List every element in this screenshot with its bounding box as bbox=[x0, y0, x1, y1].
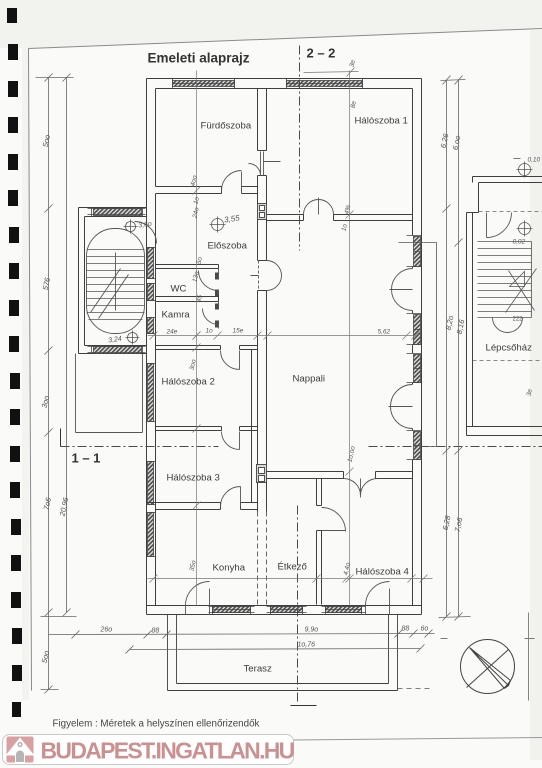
door Konyha north bbox=[221, 487, 241, 507]
wall H1 south / Nappali north bbox=[267, 215, 413, 221]
svg-text:9,9o: 9,9o bbox=[305, 627, 319, 634]
stairwell level circle 0,02 bbox=[517, 221, 533, 237]
level marker 3,60 bbox=[124, 220, 138, 234]
door H4 bbox=[322, 508, 346, 532]
door H4-Terasz (bottom wall) bbox=[366, 582, 390, 615]
svg-text:Hálószoba 3: Hálószoba 3 bbox=[167, 473, 220, 484]
flue block lower (chimney) bbox=[257, 465, 267, 483]
balcony door east (double leaf) bbox=[390, 269, 413, 311]
stairwell treads bbox=[478, 242, 532, 318]
svg-text:Figyelem : Méretek a helyszíne: Figyelem : Méretek a helyszínen ellenőri… bbox=[53, 719, 260, 730]
window top-1 bbox=[173, 79, 235, 89]
door H2 bbox=[221, 351, 240, 370]
wall WC north bbox=[156, 265, 219, 269]
terasz bbox=[168, 615, 398, 691]
svg-text:88: 88 bbox=[152, 628, 160, 635]
terasz dashes right bbox=[398, 688, 433, 690]
svg-text:Nappali: Nappali bbox=[293, 374, 326, 385]
window east E4 bbox=[407, 431, 422, 460]
window east E3 bbox=[407, 354, 422, 383]
room labels bbox=[162, 116, 533, 675]
spiral stair oval bbox=[87, 229, 145, 334]
svg-text:88: 88 bbox=[402, 626, 410, 633]
binding strip bbox=[7, 8, 22, 717]
window top-2 bbox=[287, 79, 363, 89]
window bottom B2 bbox=[267, 606, 307, 615]
svg-text:24e: 24e bbox=[166, 329, 178, 336]
door Fürdőszoba south bbox=[222, 171, 242, 194]
svg-text:Kamra: Kamra bbox=[162, 310, 191, 321]
section line 2-2 (dash-dot) bbox=[298, 46, 300, 705]
chain x349 labels bbox=[341, 100, 358, 576]
level marker 3,55 Előszoba bbox=[210, 217, 226, 233]
wall Étkező/H4 divider bbox=[317, 479, 322, 605]
window west H3 bbox=[147, 462, 156, 505]
svg-text:Emeleti alaprajz: Emeleti alaprajz bbox=[148, 51, 250, 66]
svg-text:Hálószoba 2: Hálószoba 2 bbox=[162, 377, 215, 388]
right stairwell Lépcsőház walls bbox=[467, 177, 542, 436]
door east lower (double leaf) bbox=[389, 385, 413, 429]
stair up diagonals bbox=[91, 269, 129, 319]
window west Konyha bbox=[147, 513, 156, 557]
exterior top wall bbox=[147, 79, 422, 89]
east facade offset line bbox=[399, 243, 437, 447]
door H1 (double leaf) bbox=[304, 198, 334, 215]
top small dim near 2-2 bbox=[304, 68, 359, 77]
svg-text:0,10: 0,10 bbox=[528, 157, 541, 164]
window east E1 bbox=[407, 236, 422, 267]
svg-text:BUDAPEST.INGATLAN.HU: BUDAPEST.INGATLAN.HU bbox=[41, 738, 295, 764]
level marker 3,24 bbox=[126, 331, 140, 345]
svg-text:Előszoba: Előszoba bbox=[208, 241, 248, 252]
right chain labels bbox=[439, 132, 467, 533]
annex below stair tower bbox=[76, 354, 143, 433]
section line 1-1 (dash-dot) bbox=[61, 446, 542, 448]
window bottom B1 bbox=[209, 606, 255, 615]
dashed wall Konyha/Étkező bbox=[258, 512, 267, 605]
window east E2 bbox=[407, 314, 422, 345]
svg-text:2 – 2: 2 – 2 bbox=[307, 46, 336, 61]
wall H2/H3 divider bbox=[156, 427, 258, 431]
svg-text:Lépcsőház: Lépcsőház bbox=[486, 343, 533, 354]
svg-text:0,02: 0,02 bbox=[513, 239, 526, 246]
left chain labels bbox=[40, 134, 71, 664]
stair tower window top bbox=[88, 208, 146, 217]
stairwell top level marker -0,10 bbox=[514, 159, 533, 178]
wall Kamra south / H2 north bbox=[156, 346, 258, 350]
svg-text:Hálószoba 4: Hálószoba 4 bbox=[356, 567, 410, 578]
stairwell bottom arc bbox=[493, 318, 523, 333]
svg-text:Konyha: Konyha bbox=[213, 563, 246, 574]
bottom dim row y634 bbox=[49, 630, 435, 639]
wall WC/Kamra divider bbox=[156, 297, 219, 302]
north circle bbox=[461, 640, 515, 694]
stair tower window bottom bbox=[88, 346, 146, 354]
interior dim row y578 bbox=[148, 575, 433, 583]
door stair-to-house bbox=[135, 222, 157, 244]
bottom dim row y649 bbox=[126, 645, 425, 654]
middle vertical chain x349 bbox=[346, 71, 354, 606]
window west H2 bbox=[147, 364, 156, 422]
interior dim row y335 bbox=[148, 332, 420, 340]
door jamb blocks corridor bbox=[215, 273, 219, 328]
stair treads bbox=[87, 250, 145, 320]
exterior bottom wall bbox=[147, 606, 422, 615]
svg-text:15e: 15e bbox=[233, 328, 244, 335]
svg-text:WC: WC bbox=[171, 284, 187, 295]
stair tower west: walls bbox=[79, 208, 147, 354]
svg-text:Étkező: Étkező bbox=[278, 562, 307, 573]
middle vertical chain x196 bbox=[193, 71, 201, 606]
left dimension chain outer bbox=[36, 74, 77, 694]
right dimension chains bbox=[439, 76, 471, 621]
svg-text:1o: 1o bbox=[206, 328, 214, 335]
door WC bbox=[199, 269, 219, 294]
svg-text:Fürdőszoba: Fürdőszoba bbox=[201, 121, 252, 132]
stairwell diagonals bbox=[506, 269, 537, 313]
west wall windows (stair side) bbox=[147, 248, 156, 334]
svg-text:5,62: 5,62 bbox=[378, 329, 391, 336]
spine wall (Fürdőszoba/Előszoba | Hálószoba1/Nappali) bbox=[252, 89, 267, 512]
exterior west wall bbox=[147, 89, 156, 606]
flue block upper bbox=[258, 204, 267, 220]
svg-text:Hálószoba 1: Hálószoba 1 bbox=[355, 116, 408, 127]
bottom-right page lines bbox=[441, 613, 535, 701]
scan line above footer bbox=[31, 738, 542, 743]
svg-text:6o: 6o bbox=[421, 626, 429, 633]
wall Nappali south bbox=[267, 472, 413, 479]
door Kamra bbox=[203, 302, 219, 329]
svg-text:1o,76: 1o,76 bbox=[298, 642, 316, 649]
wall Fürdőszoba south bbox=[156, 187, 258, 194]
svg-text:1 – 1: 1 – 1 bbox=[72, 451, 101, 466]
door Konyha-Terasz (bottom wall) bbox=[186, 582, 210, 615]
door H3 bbox=[222, 432, 240, 450]
wall H3 south / Konyha north bbox=[147, 503, 258, 510]
footer house icon bbox=[6, 737, 35, 763]
chain x196 labels bbox=[189, 174, 204, 571]
footer bar bbox=[3, 735, 294, 765]
stairwell dashed lines bbox=[473, 212, 542, 361]
door Nappali south (double leaf) bbox=[344, 479, 378, 498]
door Előszoba-Nappali (spine gap, double) bbox=[251, 261, 282, 291]
exterior east wall bbox=[413, 89, 422, 606]
stairwell door bbox=[487, 213, 512, 238]
svg-text:Terasz: Terasz bbox=[244, 664, 272, 675]
door Fürdőszoba east (spine gap) bbox=[249, 152, 281, 176]
window bottom B3 bbox=[322, 606, 366, 615]
svg-text:26o: 26o bbox=[100, 627, 113, 634]
